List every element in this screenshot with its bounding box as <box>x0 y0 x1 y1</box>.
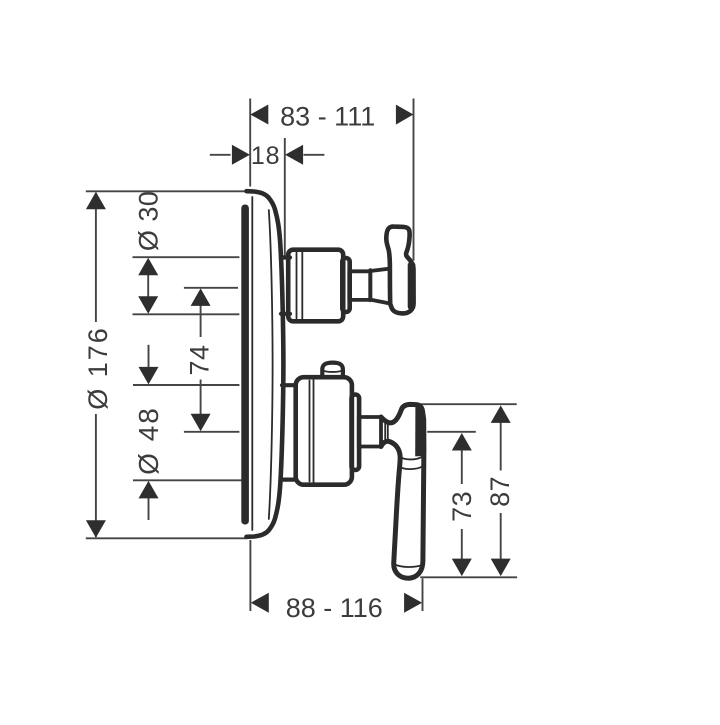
svg-text:Ø 30: Ø 30 <box>133 191 163 252</box>
top unit sleeve O30 <box>281 258 290 314</box>
arrow 87 bottom <box>491 559 511 577</box>
bottom cartridge flange line 1 <box>309 381 311 482</box>
plate inner contour line <box>269 210 273 519</box>
dim O48 top extension line <box>133 384 239 386</box>
arrow 74 top <box>191 288 211 306</box>
top cartridge flange line 1 <box>296 253 298 319</box>
dim O48 lower tail <box>148 494 150 520</box>
top cartridge flange line 2 <box>301 252 303 320</box>
plate front face line <box>251 197 253 530</box>
arrow O30 top <box>138 258 158 276</box>
lever ferrule band <box>399 457 423 469</box>
dim O176 top extension line <box>86 190 246 192</box>
dim 87 upper shaft <box>500 418 502 471</box>
top cartridge nut <box>342 258 349 312</box>
arrow 83-111 right <box>396 105 414 125</box>
top handle hub <box>370 269 390 304</box>
bottom unit sleeve O48 <box>282 385 296 479</box>
plate outer silhouette <box>247 191 284 537</box>
arrow 18 left <box>232 145 250 165</box>
arrow O176 top <box>86 192 106 210</box>
bottom cartridge nut <box>352 395 360 471</box>
dim 74 upper shaft <box>200 300 202 337</box>
dim 87 lower shaft <box>500 513 502 562</box>
dim 18 right extension line <box>284 138 286 256</box>
dim O48 upper tail <box>148 345 150 372</box>
svg-text:74: 74 <box>185 344 215 375</box>
bottom button rim <box>323 370 343 372</box>
dim 88-116 left extension line <box>249 540 251 611</box>
svg-text:83 - 111: 83 - 111 <box>280 101 375 131</box>
top knob (cross-handle side view) <box>386 227 413 314</box>
bottom top button <box>322 363 343 379</box>
dim O176 line lower segment <box>95 414 97 537</box>
bottom cartridge flange line 2 <box>313 380 315 483</box>
svg-text:73: 73 <box>447 491 477 522</box>
svg-text:18: 18 <box>251 142 280 170</box>
dim 87 top extension line <box>415 403 517 405</box>
arrow O176 bottom <box>86 520 106 538</box>
dim O30 bottom extension line <box>133 313 240 315</box>
arrow 83-111 left <box>250 105 268 125</box>
arrow 73 bottom <box>452 559 472 577</box>
arrow O30 bottom <box>138 296 158 314</box>
dim O30 top extension line <box>133 256 240 258</box>
arrow 87 top <box>491 405 511 423</box>
lever handle outline <box>381 404 424 578</box>
lever hub dark bar <box>415 405 424 456</box>
bottom stem <box>359 417 381 447</box>
arrow O48 bottom (outside, pointing up) <box>139 481 159 499</box>
escutcheon plate back rim (filled bar) <box>241 205 249 525</box>
dim 83-111 right extension line <box>413 99 415 261</box>
top knob dark bar <box>408 262 416 311</box>
dim 74 top extension line <box>184 287 238 289</box>
svg-text:87: 87 <box>485 476 515 507</box>
bottom cartridge body <box>296 377 352 485</box>
dim 83-111 left extension line <box>249 99 251 187</box>
arrow O48 top (outside, pointing down) <box>139 367 159 385</box>
dim 73 upper shaft <box>461 446 463 484</box>
svg-text:Ø 176: Ø 176 <box>83 326 113 410</box>
svg-text:Ø 48: Ø 48 <box>133 406 164 475</box>
arrow 73 top <box>452 433 472 451</box>
dim O30 shaft <box>147 268 149 303</box>
dim 18 right tail line <box>304 154 325 156</box>
dim 18 left tail line <box>210 154 231 156</box>
bottom neck groove lines <box>385 422 388 442</box>
arrow 74 bottom <box>191 414 211 432</box>
dim 74 bottom extension line <box>184 431 240 433</box>
dim 74 lower shaft <box>200 380 202 417</box>
svg-text:88 - 116: 88 - 116 <box>286 593 383 623</box>
arrow 88-116 left <box>251 593 269 613</box>
top cartridge body <box>288 250 343 322</box>
dim 73 lower shaft <box>461 529 463 562</box>
dim O176 bottom extension line <box>86 537 247 539</box>
dim O48 bottom extension line <box>133 479 243 481</box>
dim 73/87 bottom extension line <box>420 576 517 578</box>
lever tip line <box>394 564 422 567</box>
arrow 18 right <box>285 145 303 165</box>
dim O176 line upper segment <box>95 193 97 322</box>
arrow 88-116 right <box>404 593 422 613</box>
dim 88-116 right extension line <box>422 579 424 612</box>
top stem <box>349 271 370 300</box>
dim 73 top extension line <box>427 431 476 433</box>
